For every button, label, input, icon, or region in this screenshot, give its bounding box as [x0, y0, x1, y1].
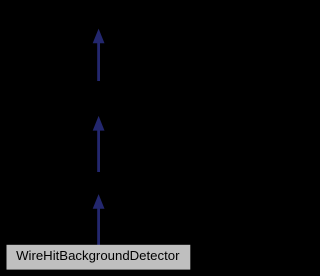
- inheritance arrow 1 (top): [93, 29, 105, 81]
- class box WireHitBackgroundDetector: [7, 245, 191, 270]
- svg-text:WireHitBackgroundDetector: WireHitBackgroundDetector: [16, 248, 180, 263]
- inheritance arrow 3 (bottom): [93, 194, 105, 245]
- inheritance arrow 2 (middle): [93, 116, 105, 172]
